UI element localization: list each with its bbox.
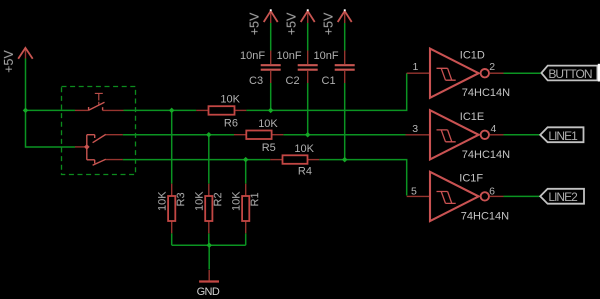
svg-text:2: 2 [489, 61, 495, 73]
svg-text:BUTTON: BUTTON [548, 67, 591, 81]
svg-text:IC1E: IC1E [460, 111, 484, 123]
svg-text:10K: 10K [258, 118, 278, 130]
svg-text:10K: 10K [220, 94, 240, 106]
svg-text:C1: C1 [322, 75, 336, 87]
svg-text:10nF: 10nF [314, 50, 339, 62]
svg-text:GND: GND [197, 286, 220, 298]
svg-text:10nF: 10nF [277, 50, 302, 62]
svg-text:R3: R3 [175, 192, 187, 206]
svg-text:R6: R6 [224, 118, 238, 130]
svg-text:LINE1: LINE1 [548, 129, 578, 143]
svg-text:C2: C2 [286, 75, 300, 87]
svg-text:+5V: +5V [285, 12, 299, 35]
svg-text:10K: 10K [294, 143, 314, 155]
svg-text:10nF: 10nF [240, 50, 265, 62]
svg-text:R4: R4 [298, 166, 312, 178]
svg-text:74HC14N: 74HC14N [462, 149, 510, 161]
svg-text:4: 4 [491, 123, 497, 135]
svg-text:10K: 10K [157, 191, 169, 211]
svg-text:R2: R2 [212, 192, 224, 206]
svg-text:10K: 10K [194, 191, 206, 211]
svg-text:5: 5 [411, 186, 417, 198]
svg-text:R5: R5 [262, 142, 276, 154]
svg-text:6: 6 [489, 185, 495, 197]
svg-text:74HC14N: 74HC14N [461, 210, 509, 222]
svg-text:+5V: +5V [2, 50, 16, 73]
svg-text:IC1F: IC1F [459, 172, 483, 184]
svg-text:1: 1 [413, 61, 419, 73]
svg-text:R1: R1 [249, 192, 261, 206]
svg-text:LINE2: LINE2 [548, 190, 578, 204]
svg-text:74HC14N: 74HC14N [462, 87, 510, 99]
svg-text:+5V: +5V [322, 12, 336, 35]
svg-text:C3: C3 [249, 75, 263, 87]
svg-text:+5V: +5V [248, 12, 262, 35]
svg-text:IC1D: IC1D [460, 49, 485, 61]
svg-text:10K: 10K [231, 191, 243, 211]
svg-text:3: 3 [412, 123, 418, 135]
